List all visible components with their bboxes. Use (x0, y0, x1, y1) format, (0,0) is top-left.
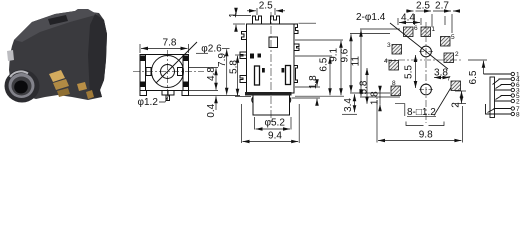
photo barrel hole (14, 81, 28, 94)
view2 bottom dark band (245, 92, 292, 96)
bracket under 8-1.2 (406, 122, 444, 126)
pad 1 (421, 27, 431, 37)
circle1 crosshair (419, 51, 433, 53)
view2 tab1 (253, 16, 262, 24)
view1 rail notch BR (183, 82, 189, 87)
footprint horizontal centerline (385, 59, 462, 61)
schematic pin5 circle (511, 94, 514, 97)
view1 center tab mid line (167, 91, 169, 96)
svg-text:2.7: 2.7 (435, 1, 449, 12)
schematic pin2 wire (495, 100, 512, 102)
view2 small mark b (258, 54, 261, 57)
dim 9.4 (242, 104, 300, 143)
view2 tick left slot (263, 69, 265, 73)
schematic pin4 wire (493, 79, 512, 85)
dim 9.8 (377, 100, 462, 143)
pad 5 (441, 37, 451, 47)
pad 2 (444, 53, 454, 63)
photo gold pin 2 (53, 79, 69, 90)
pad 8 (391, 86, 401, 96)
view1 vertical centerline (167, 50, 169, 100)
view2 left hook mid (240, 52, 247, 59)
schematic body bar (490, 77, 495, 118)
VIEW 2 : top view (240, 16, 316, 115)
photo gold pin 5 (86, 90, 94, 99)
phi2.6 leader shelf (196, 52, 208, 54)
view1 right wing (178, 68, 183, 76)
view1 left rail (145, 55, 147, 91)
photo top face (14, 9, 99, 42)
view1 rail notch BL (140, 82, 146, 87)
svg-text:5: 5 (451, 34, 455, 41)
footprint bottom-left step (395, 104, 405, 116)
photo barrel ring2 (12, 77, 32, 96)
view1 bottom pin stub (166, 95, 170, 101)
schematic pin7 wire (488, 109, 512, 113)
svg-text:9.4: 9.4 (268, 130, 282, 141)
view1 horizontal centerline (133, 71, 204, 73)
diagonal construction line (390, 23, 448, 69)
svg-text:9.8: 9.8 (419, 130, 433, 141)
svg-text:11: 11 (351, 56, 362, 67)
view1 left foot (140, 91, 147, 96)
schematic pin3 circle (511, 88, 514, 91)
svg-text:4.4: 4.4 (401, 13, 415, 24)
dim 2.5 top (247, 8, 285, 15)
view1 rail notch TL (140, 56, 146, 61)
svg-text:1: 1 (432, 26, 436, 33)
svg-text:2.5: 2.5 (259, 0, 273, 11)
photo left metal pin (7, 50, 14, 61)
svg-text:1.8: 1.8 (308, 75, 319, 89)
photo barrel highlight arc (10, 71, 28, 77)
svg-text:1.8: 1.8 (370, 91, 381, 105)
schematic pin3 wire (495, 89, 512, 91)
view2 left hook top (242, 32, 247, 40)
dim 9.1 right (295, 40, 344, 96)
svg-text:5.8: 5.8 (228, 60, 239, 74)
leader 8-1.2 to pad7 (434, 88, 451, 116)
view1 rail notch TR (183, 56, 189, 61)
schematic pin1 wire (484, 73, 512, 75)
view2 vertical centerline (270, 12, 272, 122)
svg-text:3.8: 3.8 (434, 67, 448, 78)
footprint vertical centerline (425, 22, 427, 123)
view1 left wing (146, 68, 151, 76)
pad 6 (404, 27, 414, 37)
svg-text:8: 8 (516, 112, 520, 119)
pad 7 (451, 81, 461, 91)
svg-text:4: 4 (384, 58, 388, 65)
photo gold pin 1 (49, 70, 65, 82)
dim 7.8 (140, 44, 189, 53)
underline 8-1.2 (407, 115, 436, 117)
dim 5.8 fp (366, 68, 368, 104)
view2 slot right (286, 66, 291, 85)
dim 7.9 (189, 48, 240, 95)
schematic pin8 wire (486, 104, 512, 114)
dim 5.5 (415, 55, 417, 88)
view1 inner hole circle (161, 65, 175, 79)
view2 right hook mid (294, 44, 299, 51)
svg-text:φ2.6: φ2.6 (201, 44, 222, 55)
dim 11 left (360, 29, 400, 97)
dim 0.4 (215, 96, 217, 110)
svg-text:7.8: 7.8 (163, 38, 177, 49)
svg-text:φ5.2: φ5.2 (265, 118, 286, 129)
ext line x445 (444, 16, 446, 25)
svg-text:9.6: 9.6 (339, 48, 350, 62)
schematic pin5 wire (496, 96, 512, 100)
svg-text:2: 2 (516, 99, 520, 106)
hole circle top (421, 46, 432, 57)
hole circle bottom (421, 84, 432, 95)
dim 1.8 right (292, 81, 321, 105)
svg-text:6.5: 6.5 (468, 70, 479, 84)
schematic pin8 circle (511, 112, 514, 115)
dim 3.4 left (342, 94, 357, 114)
svg-text:4.8: 4.8 (206, 67, 217, 81)
dim 2.5 / 2.7 top (406, 11, 460, 33)
dim 6.5 fp right (468, 60, 487, 74)
svg-text:2: 2 (451, 102, 462, 108)
view2 ear right (290, 97, 291, 103)
svg-text:6.5: 6.5 (318, 57, 329, 71)
svg-text:5.8: 5.8 (358, 80, 369, 94)
view1 diagonal leader (156, 42, 197, 83)
view2 ear left (252, 97, 253, 103)
svg-text:φ1.2: φ1.2 (138, 97, 159, 108)
pad 4 (389, 61, 399, 71)
photo barrel ring (9, 73, 35, 98)
SCHEMATIC (484, 72, 515, 117)
dim 4.8 (189, 68, 218, 91)
svg-text:1: 1 (228, 12, 239, 18)
dim phi5.2 (255, 117, 292, 130)
view2 right hook top (294, 24, 298, 34)
view2 tab2 (271, 16, 280, 24)
phi1.2 leader (159, 96, 169, 103)
dim 2 fp (455, 91, 466, 104)
svg-text:7.9: 7.9 (217, 53, 228, 67)
svg-text:8: 8 (392, 80, 396, 87)
view2 center square (269, 37, 278, 48)
view2 top right ext (299, 22, 317, 24)
view2 right hook low (294, 66, 298, 83)
view1 right rail (182, 55, 184, 91)
dim 4.4 (398, 18, 421, 25)
dim 5.8 left (235, 55, 251, 97)
view1 body outline (140, 55, 189, 91)
schematic pin6 wire (496, 85, 512, 89)
schematic pin6 circle (511, 83, 514, 86)
photo top slot (48, 15, 68, 25)
schematic pin7 circle (511, 107, 514, 110)
dim 3.8 (434, 77, 450, 79)
view1 barrel circle (152, 56, 184, 88)
dim 9.6 left (350, 34, 390, 94)
photo gold pin 4 (77, 82, 87, 91)
view2 body outline (247, 24, 295, 115)
svg-text:3.4: 3.4 (343, 98, 354, 112)
photo of SMD phone jack (5, 9, 108, 103)
circle2 crosshair (419, 89, 433, 91)
dim 1 top-left (233, 8, 251, 31)
schematic pin1 circle (511, 72, 514, 75)
photo right face shade (88, 14, 107, 98)
svg-text:2: 2 (455, 51, 459, 58)
svg-text:6: 6 (414, 25, 418, 32)
photo body main (9, 9, 107, 100)
svg-text:0.4: 0.4 (206, 103, 217, 117)
photo barrel outer (5, 70, 40, 103)
photo gold pin 3 (57, 88, 70, 97)
view2 left hook low (240, 76, 247, 83)
view2 slot left (255, 66, 260, 85)
view1 center tab (162, 91, 174, 96)
view2 small mark a (251, 54, 254, 58)
dim 1.8 fp (379, 87, 381, 111)
svg-text:9.1: 9.1 (329, 48, 340, 62)
svg-text:2.5: 2.5 (416, 1, 430, 12)
dim 6.5 right (295, 56, 332, 95)
view1 right foot (182, 91, 189, 96)
view2 tick right slot (282, 69, 284, 73)
svg-text:3: 3 (387, 42, 391, 49)
svg-text:5.5: 5.5 (403, 65, 414, 79)
pad 3 (392, 45, 402, 55)
schematic pin2 circle (511, 99, 514, 102)
svg-text:2-φ1.4: 2-φ1.4 (356, 12, 386, 23)
VIEW 1 : front view (140, 42, 197, 101)
schematic pin4 circle (511, 77, 514, 80)
